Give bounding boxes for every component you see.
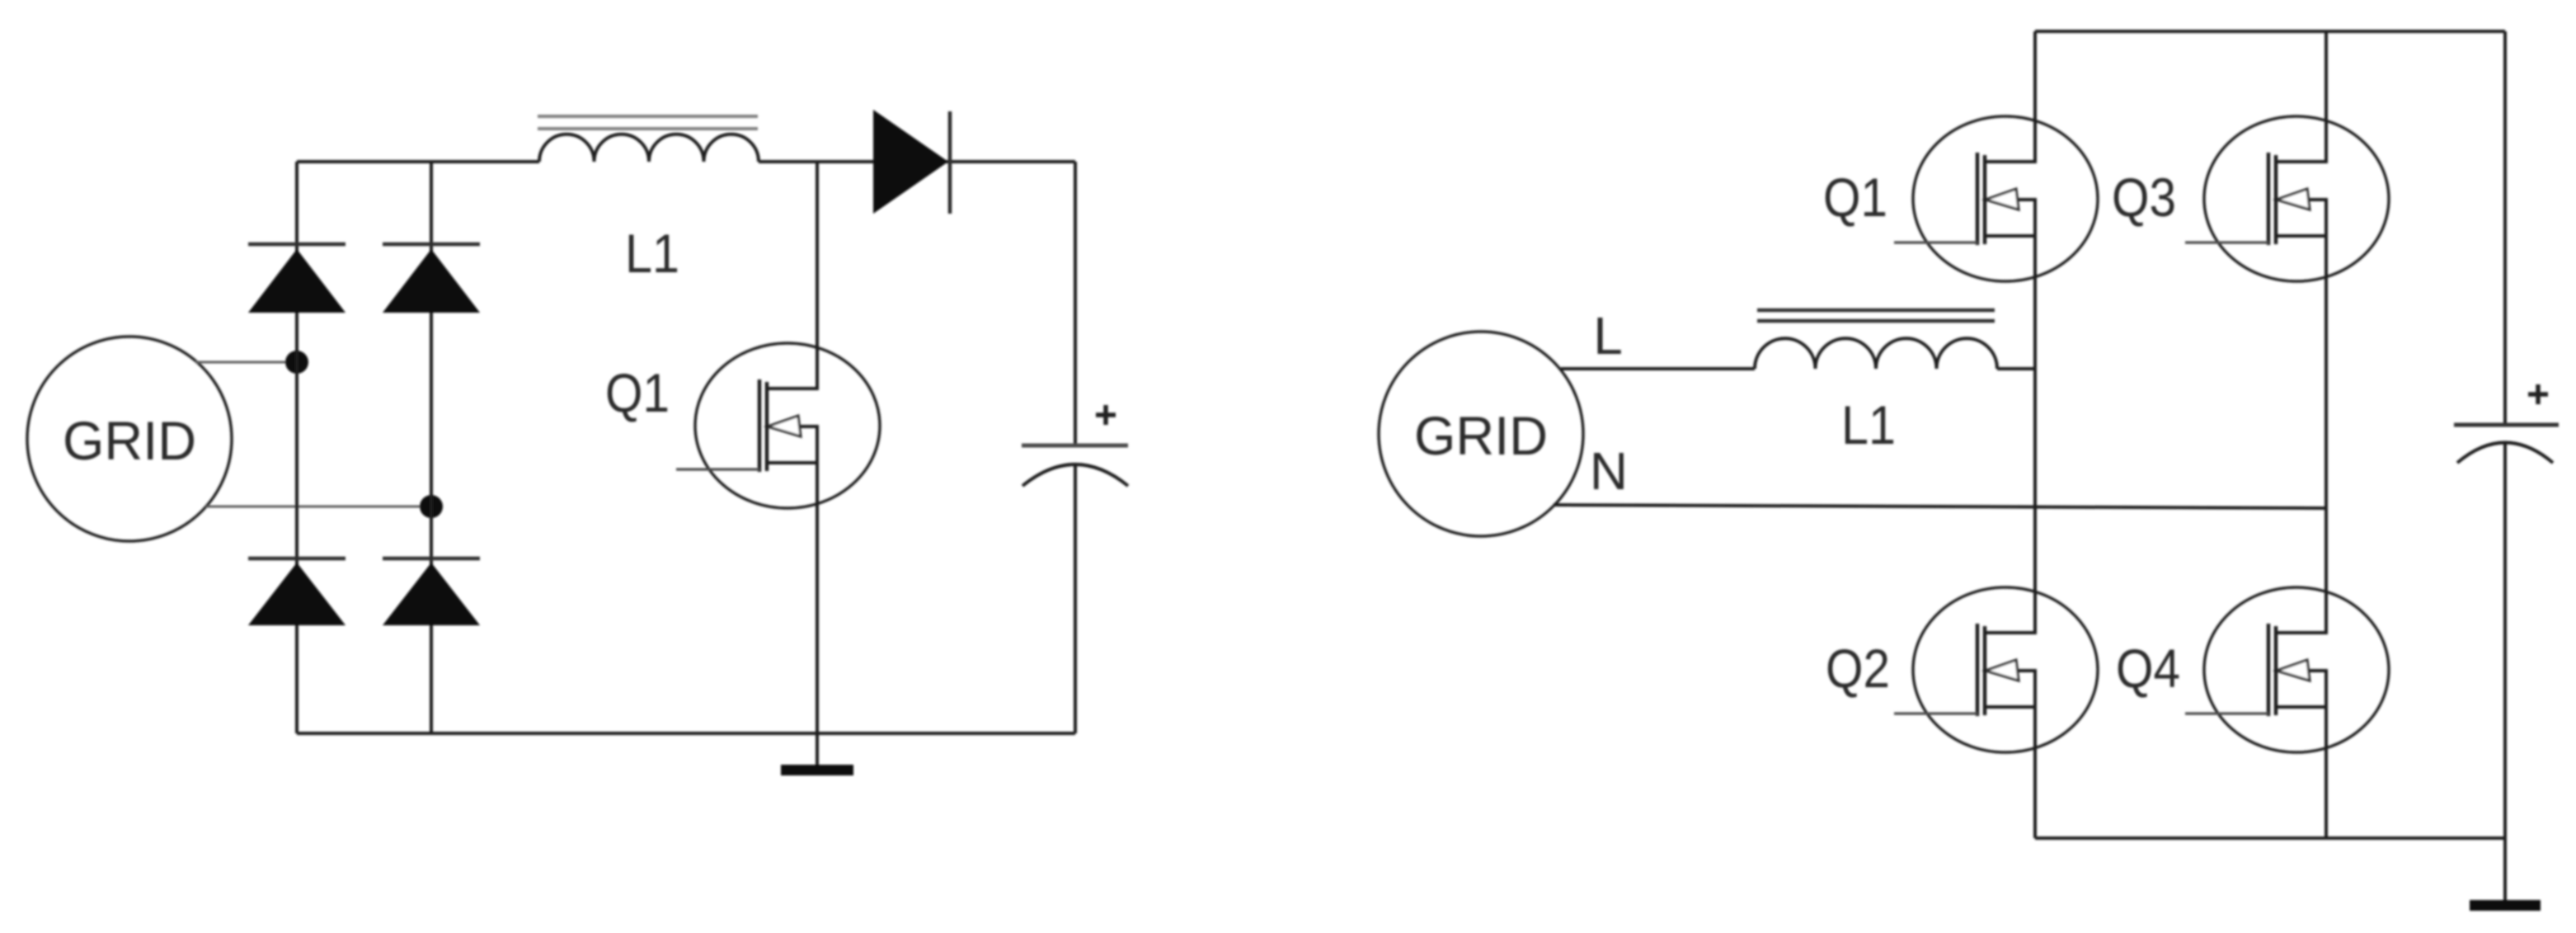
wire bottom rail (left): [297, 732, 1075, 735]
node B junction dot: [420, 495, 443, 518]
capacitor C2 top lead: [2503, 31, 2507, 425]
diode D3 bridge bottom-left: [248, 558, 346, 625]
svg-text:L1: L1: [625, 223, 679, 284]
transistor Q1 (right): [1894, 115, 2098, 282]
grid source AC1: [27, 337, 232, 541]
capacitor C2: [2454, 384, 2559, 463]
capacitor C1 top lead: [1074, 162, 1077, 445]
ground (right): [2470, 838, 2541, 911]
transistor Q1 (left): [676, 342, 880, 509]
ground (left): [781, 733, 853, 775]
transistor Q3: [2185, 115, 2389, 282]
wire C1 bottom lead: [1074, 463, 1077, 733]
diode D1 bridge top-left: [248, 244, 346, 313]
wire L segment inductor to leg: [1997, 367, 2035, 370]
capacitor C1: [1022, 405, 1128, 486]
diode D5 boost: [873, 110, 950, 214]
svg-text:Q1: Q1: [605, 362, 670, 423]
svg-text:GRID: GRID: [1414, 405, 1548, 466]
diode D2 bridge top-right: [383, 244, 480, 313]
wire bridge left leg: [295, 162, 298, 733]
wire left leg lower: [2033, 752, 2037, 838]
svg-text:Q3: Q3: [2112, 167, 2176, 228]
svg-text:Q2: Q2: [1826, 638, 1890, 699]
wire grid bottom to node B: [206, 506, 431, 508]
svg-text:L: L: [1593, 306, 1623, 365]
wire top rail left segment: [297, 160, 539, 163]
inductor L1 (right): [1755, 310, 1997, 369]
wire Q1 drain: [816, 162, 819, 390]
wire top rail right segment: [759, 160, 1075, 163]
inductor L1 (left): [538, 116, 759, 162]
node A junction dot: [285, 351, 308, 374]
wire Q1 source to bottom rail: [816, 463, 819, 733]
svg-text:N: N: [1590, 441, 1628, 501]
wire right leg lower: [2325, 752, 2328, 838]
wire left leg upper: [2033, 31, 2037, 117]
svg-text:Q1: Q1: [1823, 167, 1887, 228]
wire N line: [1554, 505, 2326, 508]
svg-text:GRID: GRID: [63, 410, 196, 471]
svg-text:Q4: Q4: [2116, 638, 2180, 699]
wire right leg middle: [2325, 281, 2328, 588]
wire bottom rail (right): [2035, 836, 2505, 840]
wire top rail (right): [2035, 30, 2505, 33]
grid source AC2: [1379, 332, 1583, 536]
wire right leg upper: [2325, 31, 2328, 117]
wire C2 bottom lead: [2503, 444, 2507, 838]
transistor Q2: [1894, 587, 2098, 753]
transistor Q4: [2185, 587, 2389, 753]
wire bridge right leg: [430, 162, 433, 733]
diode D4 bridge bottom-right: [383, 558, 480, 625]
wire grid top to node A: [195, 361, 297, 364]
svg-text:L1: L1: [1841, 394, 1896, 455]
wire left leg middle: [2033, 281, 2037, 588]
wire L segment grid to inductor: [1561, 367, 1755, 370]
